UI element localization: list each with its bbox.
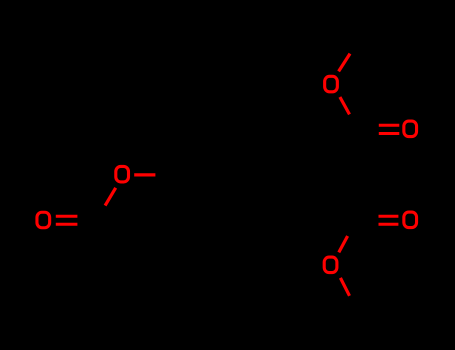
- bottom ester C=O double bond line 1: [379, 215, 399, 218]
- acetate ester oxygen O2: [116, 166, 129, 182]
- bottom ester C=O double bond line 2: [379, 223, 399, 226]
- top ester C=O double bond line 1: [379, 124, 400, 127]
- bond O3 to top carbonyl carbon: [340, 97, 350, 114]
- bottom ester carbonyl oxygen O6: [404, 212, 417, 228]
- bottom ester oxygen O5: [324, 257, 337, 273]
- bond O2 to ring carbon: [134, 173, 155, 176]
- top ester oxygen O3: [325, 76, 338, 92]
- top ester carbonyl oxygen O4: [404, 121, 417, 137]
- acetate C=O double bond line 1: [56, 215, 78, 218]
- top ester methyl bond: [339, 54, 350, 72]
- bond O2 to acetate carbonyl carbon: [105, 188, 116, 206]
- acetate carbonyl oxygen O1: [37, 212, 50, 228]
- top ester C=O double bond line 2: [379, 132, 400, 135]
- bond O5 to bottom methyl: [340, 278, 349, 296]
- bond O5 to bottom carbonyl carbon: [339, 236, 348, 252]
- acetate C=O double bond line 2: [56, 223, 78, 226]
